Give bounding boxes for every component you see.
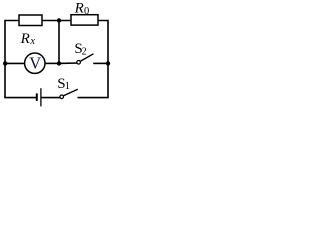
node A junction dot (between Rx and R0) <box>57 18 61 22</box>
node B junction dot <box>57 61 61 65</box>
switch S1 contact circle <box>60 95 64 99</box>
wire: switch S2 to right edge <box>93 62 108 64</box>
svg-text:0: 0 <box>84 6 89 17</box>
wire: voltmeter to node B <box>45 62 59 64</box>
svg-text:1: 1 <box>65 81 70 92</box>
switch S1 blade <box>63 89 78 96</box>
wire: node B to switch S2 contact <box>59 62 79 64</box>
wire: bottom left segment to battery <box>4 97 36 99</box>
wire: outer loop top, left, right sides <box>5 21 108 98</box>
switch S2 blade <box>80 54 93 62</box>
resistor Rx box <box>19 15 42 26</box>
svg-text:R: R <box>74 1 84 17</box>
svg-text:x: x <box>29 36 35 47</box>
voltmeter V (circle) <box>25 53 45 73</box>
node dot on right edge <box>106 61 110 65</box>
svg-text:R: R <box>20 31 30 47</box>
wire: switch S1 to bottom right corner <box>78 97 109 99</box>
wire: left edge to voltmeter <box>5 62 35 64</box>
wire: battery to switch S1 <box>41 97 62 99</box>
switch S2 contact circle <box>77 61 81 65</box>
resistor R0 box <box>71 15 98 25</box>
battery (cell) long plate <box>40 88 42 106</box>
svg-text:V: V <box>29 53 41 72</box>
wire: left side lower segment <box>4 63 6 97</box>
svg-text:2: 2 <box>82 46 87 57</box>
battery (cell) short plate <box>36 93 38 101</box>
node dot on left edge (voltmeter branch) <box>3 61 7 65</box>
wire: vertical from node A down to voltmeter branch <box>58 21 60 64</box>
